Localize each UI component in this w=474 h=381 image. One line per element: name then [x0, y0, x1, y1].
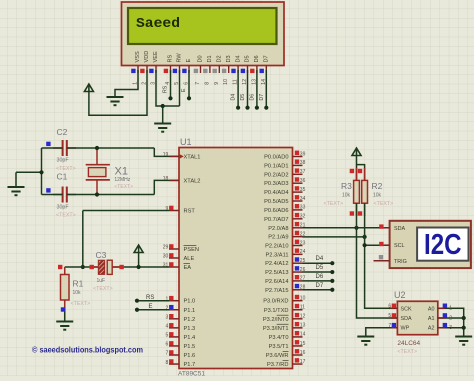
LCD pin numbers 1-14	[133, 79, 267, 85]
wire power to R3 R2 tops	[357, 156, 365, 181]
svg-text:X1: X1	[115, 166, 128, 178]
U2 pin 1 A0	[428, 304, 452, 313]
svg-text:16: 16	[300, 350, 306, 356]
U1 XTAL1 clock arrow	[180, 154, 184, 158]
svg-text:P3.1/TXD: P3.1/TXD	[264, 308, 289, 314]
svg-text:P0.2/AD2: P0.2/AD2	[264, 172, 288, 178]
svg-text:PSEN: PSEN	[184, 247, 200, 253]
wire D5 net at U1	[303, 270, 335, 274]
U1 pin 4 P1.3	[166, 323, 196, 332]
svg-text:D6: D6	[249, 94, 255, 101]
wire D6 net at U1	[303, 279, 335, 283]
U1 pin 19 XTAL1	[163, 152, 201, 160]
svg-text:RS: RS	[146, 295, 154, 301]
U1 pin 37 P0.2/AD2	[264, 168, 305, 178]
svg-text:D7: D7	[264, 55, 270, 62]
svg-text:36: 36	[300, 178, 306, 184]
wire P2.1 to R2 (SCL net)	[303, 235, 367, 239]
svg-text:VDD: VDD	[144, 51, 150, 63]
svg-text:10k: 10k	[342, 193, 351, 199]
svg-text:RW: RW	[177, 53, 183, 63]
svg-text:23: 23	[300, 240, 306, 246]
I2C TRIG pin stub	[374, 255, 390, 261]
U1 pin 17 P3.7/RD	[267, 358, 306, 368]
svg-text:C2: C2	[57, 127, 68, 137]
state box C3 left pin	[90, 265, 94, 269]
svg-text:3: 3	[449, 325, 452, 331]
LCD pin state boxes	[131, 69, 264, 73]
svg-text:D4: D4	[231, 94, 237, 101]
svg-text:SDA: SDA	[394, 226, 405, 232]
wire R3 bottom SDA vertical to U2	[357, 203, 398, 318]
state box R1 top pin	[58, 265, 62, 269]
svg-text:P1.2: P1.2	[184, 317, 196, 323]
svg-text:RS: RS	[163, 85, 169, 93]
svg-text:4: 4	[166, 324, 169, 330]
U2 pin 5 SDA	[388, 313, 412, 322]
svg-text:D3: D3	[226, 55, 232, 62]
U1 pin 9 RST	[166, 206, 196, 215]
U2 pin 3 A2	[428, 323, 452, 332]
label D4	[316, 256, 324, 262]
state box R3 top	[350, 169, 354, 173]
U1 pin 7 P1.6	[166, 350, 196, 359]
U1 pin 28 P2.7/A15	[265, 284, 305, 294]
svg-text:19: 19	[163, 152, 169, 158]
svg-text:E: E	[186, 59, 192, 63]
svg-text:D7: D7	[316, 283, 324, 289]
svg-text:A2: A2	[428, 326, 435, 332]
wire LCD VDD to power	[89, 70, 147, 115]
label D7	[316, 283, 324, 289]
svg-text:D0: D0	[198, 55, 204, 62]
svg-text:31: 31	[163, 263, 169, 269]
wire C2 C1 left vertical to ground	[16, 148, 63, 195]
svg-text:R3: R3	[341, 181, 352, 191]
svg-text:P0.7/AD7: P0.7/AD7	[264, 217, 288, 223]
U2 pin 7 WP	[388, 323, 409, 332]
crystal X1 12MHz	[86, 148, 133, 195]
svg-text:I2C: I2C	[424, 229, 462, 261]
U1 pin 25 P2.4/A12	[265, 257, 305, 267]
svg-text:11: 11	[300, 305, 305, 311]
svg-text:10k: 10k	[373, 193, 382, 199]
U1 pin 38 P0.1/AD1	[264, 160, 305, 170]
U1 pin 8 P1.7	[166, 359, 196, 368]
ground (crystal caps)	[8, 187, 25, 195]
state box R2 top	[358, 169, 362, 173]
U1 pin 16 P3.6/WR	[266, 349, 306, 359]
svg-text:7: 7	[195, 82, 201, 85]
svg-text:P3.3/INT1: P3.3/INT1	[263, 326, 289, 332]
svg-text:10: 10	[223, 79, 229, 85]
svg-text:29: 29	[163, 245, 169, 251]
wire R2 bottom SCL vertical to U2	[363, 203, 398, 308]
U1 pin 22 P2.1/A9	[268, 231, 305, 241]
svg-text:<TEXT>: <TEXT>	[324, 201, 344, 207]
state box C3 right pin	[119, 265, 123, 269]
U1 pin 5 P1.4	[166, 332, 196, 341]
svg-text:P1.4: P1.4	[184, 335, 196, 341]
svg-text:30pF: 30pF	[57, 158, 70, 164]
U1 pin 24 P2.3/A11	[266, 248, 306, 258]
svg-text:RST: RST	[184, 209, 196, 215]
svg-text:D1: D1	[207, 55, 213, 62]
svg-text:P3.6/WR: P3.6/WR	[266, 353, 289, 359]
svg-text:24LC64: 24LC64	[397, 340, 420, 347]
svg-text:D7: D7	[259, 94, 265, 101]
I2C debugger box	[390, 221, 471, 268]
svg-text:33: 33	[300, 205, 306, 211]
U1 pin 26 P2.5/A13	[265, 266, 305, 276]
svg-text:P2.2/A10: P2.2/A10	[265, 244, 288, 250]
U1 pin 14 P3.4/T0	[269, 331, 306, 341]
resistor R1 10k	[61, 267, 91, 322]
svg-text:TRIG: TRIG	[394, 259, 407, 265]
label D6 (vertical)	[249, 94, 255, 101]
svg-text:D5: D5	[240, 94, 246, 101]
U2 pin 2 A1	[428, 313, 452, 322]
svg-text:38: 38	[300, 160, 306, 166]
state box R1 bottom pin	[61, 307, 65, 311]
svg-text:30pF: 30pF	[57, 205, 70, 211]
svg-text:3: 3	[166, 315, 169, 321]
state box R2 bottom	[358, 211, 362, 215]
power arrow (pullups)	[352, 148, 361, 156]
wire XTAL1 net	[67, 146, 179, 157]
svg-text:7: 7	[388, 323, 391, 329]
label E (vertical)	[181, 88, 187, 92]
svg-text:A0: A0	[428, 306, 435, 312]
ground (LCD VSS)	[107, 97, 124, 105]
svg-text:C3: C3	[96, 250, 107, 260]
U1 pin 36 P0.3/AD3	[264, 177, 305, 187]
wire RS net to P1.0	[135, 299, 169, 303]
U1 pin 18 XTAL2	[163, 176, 201, 184]
svg-text:WP: WP	[401, 326, 410, 332]
U1 pin 33 P0.6/AD6	[264, 204, 305, 214]
U1 pin 27 P2.6/A14	[265, 275, 305, 285]
U1 pin 31 EA	[163, 262, 192, 271]
svg-text:P0.4/AD4: P0.4/AD4	[264, 190, 288, 196]
svg-text:1uF: 1uF	[97, 278, 106, 284]
svg-text:9: 9	[214, 82, 220, 85]
resistor R3 10k	[324, 168, 360, 216]
svg-text:<TEXT>: <TEXT>	[93, 286, 113, 292]
state box R3 bottom	[350, 211, 354, 215]
svg-text:ALE: ALE	[184, 256, 195, 262]
svg-text:R2: R2	[372, 181, 383, 191]
wire XTAL2 net	[67, 180, 179, 196]
resistor R2 10k	[362, 168, 394, 216]
power arrow (LCD VDD)	[84, 84, 93, 92]
I2C SCL pin stub	[379, 242, 389, 246]
svg-text:P2.1/A9: P2.1/A9	[268, 235, 288, 241]
svg-text:P3.0/RXD: P3.0/RXD	[263, 299, 288, 305]
svg-text:8: 8	[166, 360, 169, 366]
U1 pin 15 P3.5/T1	[269, 340, 306, 350]
microcontroller U1 AT89C51 body	[178, 137, 293, 377]
U1 pin 30 ALE	[163, 253, 195, 262]
svg-text:12: 12	[300, 314, 306, 320]
wire LCD D6 with node dot	[255, 70, 259, 110]
svg-text:VSS: VSS	[135, 51, 141, 62]
svg-text:1: 1	[449, 306, 452, 312]
U1 pin 3 P1.2	[166, 314, 196, 323]
svg-text:<TEXT>: <TEXT>	[71, 301, 91, 307]
svg-text:D5: D5	[245, 55, 251, 62]
U1 pin 39 P0.0/AD0	[264, 151, 305, 161]
label D5	[316, 265, 324, 271]
ground (R1)	[56, 322, 73, 330]
svg-text:12MHz: 12MHz	[114, 177, 130, 183]
svg-text:13: 13	[300, 323, 306, 329]
svg-text:P0.5/AD5: P0.5/AD5	[264, 199, 288, 205]
svg-text:RS: RS	[168, 54, 174, 62]
U1 pin 12 P3.2/INT0	[263, 313, 306, 323]
label RS (vertical)	[163, 85, 169, 93]
svg-text:8: 8	[204, 82, 210, 85]
U2 pin 6 SCK	[388, 304, 412, 313]
capacitor C1	[53, 172, 76, 219]
svg-text:E: E	[181, 88, 187, 92]
svg-text:P1.7: P1.7	[184, 362, 196, 368]
ground (U2 address)	[455, 337, 472, 345]
svg-text:A1: A1	[428, 316, 435, 322]
capacitor C2	[53, 127, 76, 172]
svg-text:U2: U2	[394, 290, 406, 300]
svg-text:P1.5: P1.5	[184, 344, 196, 350]
svg-text:D6: D6	[316, 274, 324, 280]
wire U2 WP to ground	[366, 328, 398, 337]
wire LCD E with node dot	[187, 70, 191, 100]
svg-text:6: 6	[388, 304, 391, 310]
LCD pin name labels VSS VDD VEE RS RW E D0-D7	[135, 51, 269, 63]
svg-text:D5: D5	[316, 265, 324, 271]
svg-text:AT89C51: AT89C51	[178, 370, 205, 376]
wire E net to P1.1	[135, 308, 169, 312]
U1 pin 29 PSEN	[163, 244, 199, 253]
svg-text:P2.3/A11: P2.3/A11	[266, 252, 289, 258]
svg-text:24: 24	[300, 249, 306, 255]
wire U2 A0 A1 A2 to ground	[438, 308, 466, 336]
label RS	[146, 295, 154, 301]
wire LCD VSS to ground	[115, 70, 138, 97]
wire LCD D7 with node dot	[264, 70, 268, 110]
svg-text:D2: D2	[217, 55, 223, 62]
wire LCD D5 with node dot	[245, 70, 249, 110]
LCD screen with text Saeed	[128, 8, 277, 44]
blog url text	[32, 345, 143, 354]
svg-text:P0.1/AD1: P0.1/AD1	[264, 163, 288, 169]
svg-text:P2.0/A8: P2.0/A8	[268, 226, 288, 232]
U1 pin 21 P2.0/A8	[268, 222, 305, 232]
svg-text:35: 35	[300, 187, 306, 193]
U1 pin 32 P0.7/AD7	[264, 213, 305, 223]
svg-text:P2.7/A15: P2.7/A15	[265, 288, 288, 294]
svg-text:<TEXT>: <TEXT>	[56, 212, 76, 218]
svg-text:Saeed: Saeed	[136, 16, 180, 32]
svg-text:1: 1	[166, 296, 169, 302]
label D6	[316, 274, 324, 280]
wire D7 net at U1	[303, 288, 335, 292]
U1 pin 13 P3.3/INT1	[263, 322, 306, 332]
capacitor C3 1uF (polarized)	[92, 250, 122, 292]
LCD display LM016L body	[122, 2, 285, 66]
svg-text:E: E	[149, 304, 153, 310]
svg-text:5: 5	[388, 313, 391, 319]
svg-text:XTAL2: XTAL2	[184, 178, 201, 184]
svg-text:R1: R1	[73, 279, 84, 289]
svg-text:SDA: SDA	[401, 316, 412, 322]
svg-text:P0.3/AD3: P0.3/AD3	[264, 181, 288, 187]
U1 pin 1 P1.0	[166, 296, 196, 305]
I2C SDA pin stub	[379, 224, 389, 228]
ground (U2 WP)	[357, 337, 374, 345]
wire reset node horizontal to EA	[65, 266, 169, 268]
svg-text:14: 14	[300, 332, 306, 338]
svg-text:<TEXT>: <TEXT>	[374, 201, 394, 207]
state box C2 left pin	[46, 142, 50, 146]
svg-text:SCL: SCL	[394, 243, 405, 249]
power arrow (reset/EA net)	[134, 245, 143, 269]
svg-text:P3.4/T0: P3.4/T0	[269, 335, 289, 341]
svg-text:P1.0: P1.0	[184, 299, 196, 305]
label D7 (vertical)	[259, 94, 265, 101]
U1 pin 23 P2.2/A10	[265, 240, 305, 250]
wire LCD D4 with node dot	[236, 70, 240, 110]
svg-text:18: 18	[163, 176, 169, 182]
label D4 (vertical)	[231, 94, 237, 101]
svg-text:P3.2/INT0: P3.2/INT0	[263, 317, 289, 323]
U1 pin 34 P0.5/AD5	[264, 195, 305, 205]
svg-text:P1.6: P1.6	[184, 353, 196, 359]
wire LCD RS with node dot	[168, 70, 172, 100]
svg-text:P1.1: P1.1	[184, 308, 196, 314]
svg-text:D4: D4	[316, 256, 324, 262]
svg-text:C1: C1	[57, 172, 68, 182]
svg-text:<TEXT>: <TEXT>	[114, 184, 133, 190]
svg-text:D4: D4	[235, 55, 241, 62]
U1 pin 35 P0.4/AD4	[264, 186, 305, 196]
state box C1 left pin	[46, 188, 50, 192]
svg-text:P0.6/AD6: P0.6/AD6	[264, 208, 288, 214]
svg-text:5: 5	[166, 333, 169, 339]
svg-text:P2.4/A12: P2.4/A12	[265, 261, 288, 267]
svg-text:P2.5/A13: P2.5/A13	[265, 270, 288, 276]
label D5 (vertical)	[240, 94, 246, 101]
wire D4 net at U1	[303, 261, 335, 265]
svg-text:32: 32	[300, 214, 306, 220]
svg-text:30: 30	[163, 254, 169, 260]
svg-text:39: 39	[300, 151, 306, 157]
svg-text:37: 37	[300, 169, 306, 175]
svg-text:10: 10	[300, 296, 306, 302]
U1 pin 2 P1.1	[166, 305, 196, 314]
svg-text:P3.5/T1: P3.5/T1	[269, 344, 289, 350]
svg-text:15: 15	[300, 341, 306, 347]
svg-text:9: 9	[166, 206, 169, 212]
svg-text:2: 2	[449, 315, 452, 321]
U1 pin 6 P1.5	[166, 341, 196, 350]
svg-text:© saeedsolutions.blogspot.com: © saeedsolutions.blogspot.com	[32, 345, 143, 354]
svg-text:SCK: SCK	[401, 306, 412, 312]
svg-text:U1: U1	[180, 137, 192, 147]
wire RST net	[81, 211, 169, 270]
svg-text:D6: D6	[254, 55, 260, 62]
EEPROM U2 24LC64 body	[394, 290, 438, 355]
svg-text:17: 17	[300, 359, 306, 365]
wire LCD VEE / RW to ground	[156, 70, 180, 124]
wire SDA net P2.0 to I2C	[303, 226, 390, 230]
svg-text:VEE: VEE	[153, 51, 159, 62]
svg-text:P2.6/A14: P2.6/A14	[265, 279, 288, 285]
svg-text:P1.3: P1.3	[184, 326, 196, 332]
svg-text:6: 6	[166, 342, 169, 348]
LCD pin stubs	[138, 66, 266, 73]
svg-text:7: 7	[166, 351, 169, 357]
label E	[149, 304, 153, 310]
svg-text:EA: EA	[184, 265, 192, 271]
svg-text:10k: 10k	[73, 290, 82, 296]
ground (LCD VEE RW)	[154, 124, 171, 132]
svg-text:XTAL1: XTAL1	[184, 154, 201, 160]
U1 pin 10 P3.0/RXD	[263, 295, 305, 305]
svg-text:<TEXT>: <TEXT>	[397, 349, 417, 355]
svg-text:P0.0/AD0: P0.0/AD0	[264, 155, 288, 161]
U1 pin 11 P3.1/TXD	[264, 304, 305, 314]
svg-text:2: 2	[166, 305, 169, 311]
svg-text:P3.7/RD: P3.7/RD	[267, 362, 289, 368]
svg-text:34: 34	[300, 196, 306, 202]
